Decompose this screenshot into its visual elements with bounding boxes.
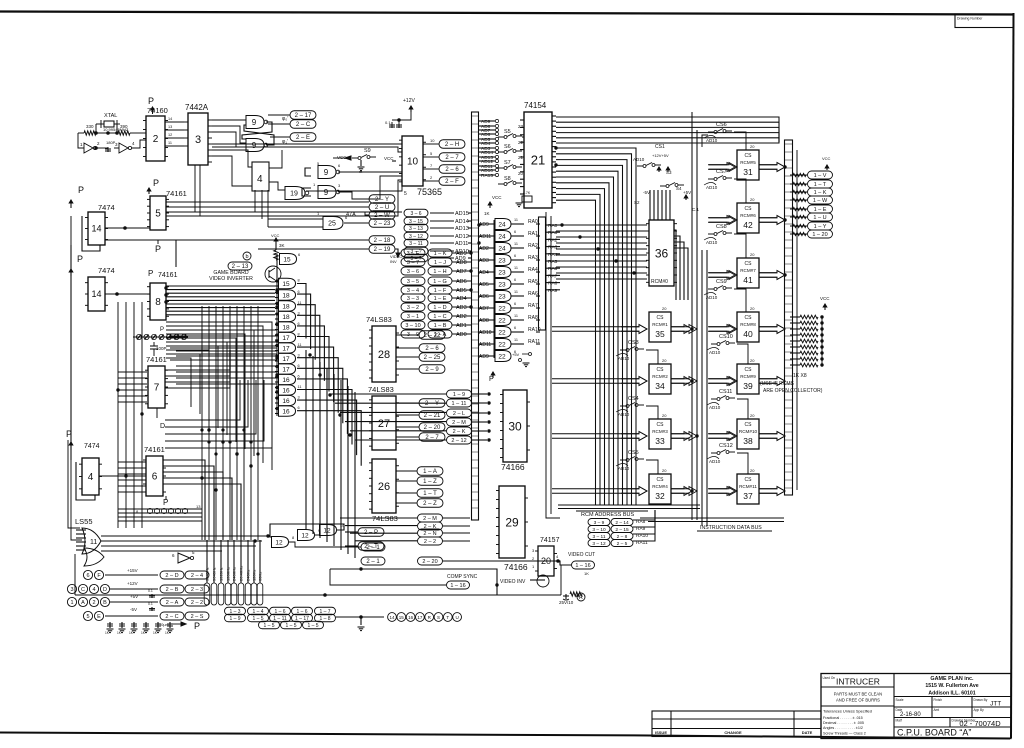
svg-text:74LS83: 74LS83 (368, 385, 394, 394)
cross coupling (242, 122, 272, 139)
svg-text:4: 4 (257, 174, 263, 185)
svg-text:11: 11 (90, 539, 97, 546)
ovals right of 27 (419, 399, 445, 408)
svg-text:AD9: AD9 (455, 256, 466, 262)
svg-text:RCM#4: RCM#4 (652, 484, 668, 489)
svg-text:34: 34 (655, 381, 665, 391)
svg-text:AD6: AD6 (479, 294, 489, 300)
svg-text:AD10: AD10 (706, 138, 718, 143)
svg-text:B: B (103, 600, 107, 606)
svg-text:6: 6 (298, 252, 301, 257)
svg-text:AD8: AD8 (479, 318, 489, 324)
svg-text:VIDEO INVERTER: VIDEO INVERTER (209, 276, 253, 282)
wire 14b to 8 (105, 293, 150, 295)
wire staircase vertical (319, 362, 321, 538)
svg-text:23: 23 (518, 124, 524, 129)
svg-text:32: 32 (655, 491, 665, 501)
svg-text:2: 2 (532, 556, 535, 561)
svg-text:AD15: AD15 (455, 211, 469, 217)
wire bundle from left to 75365 (208, 211, 402, 213)
svg-text:15: 15 (283, 256, 291, 263)
svg-text:3: 3 (70, 587, 73, 593)
oval pair AD2 (401, 312, 425, 320)
oval RA8 (588, 519, 610, 526)
svg-text:Tolerances Unless Specified: Tolerances Unless Specified (823, 709, 872, 714)
svg-text:1 – E: 1 – E (434, 296, 447, 302)
svg-text:42: 42 (743, 220, 753, 230)
rom output arrows left column (671, 325, 692, 334)
pullup resistor row 3 (800, 333, 818, 337)
wire counter mesh (166, 354, 200, 414)
svg-text:CS4: CS4 (628, 396, 639, 402)
svg-text:AD4: AD4 (479, 270, 489, 276)
svg-text:D: D (103, 587, 107, 593)
wire stack staircase (297, 347, 334, 402)
ROM RCM#9 (39) (737, 364, 759, 394)
svg-text:74LS83: 74LS83 (366, 315, 392, 324)
svg-text:XTAL: XTAL (104, 113, 117, 119)
svg-text:2 – 4: 2 – 4 (191, 573, 203, 579)
svg-text:CS: CS (745, 153, 753, 159)
svg-text:1 – V: 1 – V (814, 173, 827, 179)
svg-text:Scale: Scale (896, 698, 904, 702)
oval 2-18 (369, 236, 395, 245)
svg-text:18: 18 (282, 314, 290, 321)
wire stack staircase (297, 294, 311, 349)
svg-text:16: 16 (408, 615, 414, 620)
gates 9c 9d (318, 166, 336, 179)
latch 23 row3 (495, 255, 511, 266)
wire counter mesh (166, 326, 263, 463)
wire RA to RCM0 (556, 236, 647, 238)
svg-text:C.1: C.1 (692, 207, 700, 212)
chip36 right stubs down (674, 230, 676, 300)
svg-text:17: 17 (282, 345, 290, 352)
svg-text:Used On: Used On (823, 676, 836, 680)
svg-text:2 – 2: 2 – 2 (424, 539, 436, 545)
svg-text:20: 20 (662, 413, 667, 418)
border bottom (0, 733, 1010, 739)
wire U8 to stack (166, 289, 275, 291)
svg-text:1: 1 (70, 600, 73, 606)
svg-text:2 – 21: 2 – 21 (424, 413, 441, 419)
wire address fan (556, 171, 618, 505)
bottom caps row (109, 622, 111, 628)
oval 1-16b (447, 581, 470, 589)
wire divider vertical (250, 306, 252, 540)
svg-text:Mat'l: Mat'l (896, 719, 903, 723)
output ovals 1-V..1-20 (808, 171, 833, 179)
svg-text:9: 9 (252, 118, 257, 127)
svg-text:-5V: -5V (130, 607, 137, 612)
ovals 2-Y 2-U 2-W right of gates (369, 195, 395, 204)
svg-text:3 – 5: 3 – 5 (407, 279, 419, 285)
wire U8 to stack (166, 292, 275, 294)
pullup resistor row 1 (800, 321, 818, 325)
svg-text:1 – E: 1 – E (814, 207, 827, 213)
svg-text:1 – Z: 1 – Z (423, 479, 437, 485)
wires 74160 to 7442 (165, 121, 184, 123)
wire address fan (556, 183, 609, 505)
svg-text:S5: S5 (504, 129, 511, 135)
pullup resistor row 4 (800, 339, 818, 343)
svg-text:3: 3 (338, 183, 341, 188)
svg-text:33: 33 (655, 436, 665, 446)
svg-text:3: 3 (298, 396, 300, 400)
svg-text:2 – 5: 2 – 5 (617, 541, 628, 547)
gate 15a top (280, 254, 297, 265)
svg-text:AD10: AD10 (709, 405, 721, 410)
mid horizontals u7 u6 outputs (165, 350, 230, 370)
svg-text:1 – B: 1 – B (434, 323, 447, 329)
bit row under U6 (147, 508, 152, 513)
wire stack staircase (297, 411, 361, 466)
pins 1A2B row (67, 597, 76, 606)
svg-text:DATE: DATE (802, 730, 813, 735)
svg-text:47A: 47A (346, 212, 356, 218)
long horizontals from gate 11 (101, 535, 268, 537)
left low vertical (74, 554, 76, 595)
freq pill 240Hz (245, 583, 251, 605)
IC U29 74166 (499, 486, 525, 558)
svg-text:11: 11 (514, 314, 518, 318)
wire 4 to 6 (99, 475, 146, 477)
svg-text:20: 20 (750, 252, 755, 257)
svg-text:ARE OPEN COLLECTOR): ARE OPEN COLLECTOR) (763, 388, 823, 394)
svg-text:P: P (78, 185, 84, 195)
svg-text:18: 18 (282, 303, 290, 310)
oval RA10 (588, 533, 610, 540)
svg-text:C: C (81, 587, 85, 593)
svg-text:27: 27 (378, 418, 390, 430)
IC U4 7474 (82, 458, 99, 495)
svg-text:74161: 74161 (146, 355, 167, 364)
svg-text:13: 13 (168, 125, 172, 129)
svg-text:2 – Z: 2 – Z (423, 501, 437, 507)
wire U8 to stack (166, 310, 275, 312)
svg-text:VCC: VCC (492, 195, 502, 200)
nand gate 9a (246, 116, 264, 129)
svg-text:RCM#3: RCM#3 (652, 429, 668, 434)
svg-text:1 – D: 1 – D (433, 305, 446, 311)
svg-text:+12V+5V: +12V+5V (652, 153, 669, 158)
svg-text:AD1: AD1 (456, 323, 467, 329)
svg-text:AD10: AD10 (709, 350, 721, 355)
latch 22 row9 (495, 327, 511, 338)
svg-text:A: A (81, 600, 85, 606)
svg-text:AD10: AD10 (706, 185, 718, 190)
svg-text:17: 17 (282, 335, 290, 342)
outer loop u4 (76, 462, 95, 500)
svg-text:RCM#8: RCM#8 (740, 322, 756, 327)
svg-text:6: 6 (514, 254, 516, 258)
svg-text:P: P (155, 244, 161, 254)
svg-text:7474: 7474 (98, 203, 115, 212)
svg-text:110µm: 110µm (157, 622, 170, 627)
wire address fan (556, 154, 632, 505)
svg-text:22: 22 (498, 329, 506, 336)
svg-text:2: 2 (430, 175, 433, 180)
svg-text:2 – 20: 2 – 20 (422, 559, 437, 565)
pins row 14-U (388, 613, 397, 622)
svg-text:+12V: +12V (127, 581, 138, 586)
ROM RCM#4 (32) (649, 474, 671, 504)
svg-text:INTRUCER: INTRUCER (836, 677, 880, 687)
oval 2-P2 (361, 557, 385, 565)
svg-text:App By: App By (974, 708, 985, 712)
svg-text:1 – 20: 1 – 20 (812, 232, 827, 238)
svg-text:40: 40 (743, 329, 753, 339)
ROM RCM#3 (33) (649, 419, 671, 449)
wire 74154 fan top (556, 133, 779, 142)
svg-text:14: 14 (91, 224, 101, 234)
svg-text:3 – 13: 3 – 13 (409, 226, 423, 232)
svg-text:CS: CS (657, 477, 665, 483)
wire U8 to stack (166, 299, 275, 301)
svg-text:11: 11 (298, 343, 302, 347)
svg-text:3 – 6: 3 – 6 (407, 269, 419, 275)
wire U5 output (166, 215, 365, 217)
ROM RCM#7 (41) (737, 258, 759, 288)
wires from 7442 to gates (212, 119, 246, 121)
wire address fan (556, 200, 596, 505)
svg-text:RCM#7: RCM#7 (740, 268, 756, 273)
svg-text:6: 6 (298, 364, 300, 368)
wire U8 to stack (166, 307, 275, 309)
svg-text:24: 24 (498, 233, 506, 240)
svg-text:2 – H: 2 – H (445, 142, 459, 148)
ovals 2-P 2-T left below (358, 528, 384, 537)
svg-text:S7: S7 (504, 160, 511, 166)
wire divider vertical (208, 306, 210, 540)
svg-text:2 – B: 2 – B (166, 587, 179, 593)
svg-text:Addison ILL. 60101: Addison ILL. 60101 (928, 691, 975, 697)
junction dots (555, 147, 557, 149)
ovals 2-C 2-S (160, 612, 184, 620)
freq pill 240KHz (231, 583, 237, 605)
svg-text:+5V: +5V (683, 190, 691, 195)
svg-text:+15V: +15V (127, 568, 138, 573)
wire address fan (556, 165, 623, 505)
wire left vertical (141, 302, 143, 528)
svg-text:U: U (455, 615, 458, 620)
svg-text:28: 28 (378, 349, 390, 361)
wire left vertical (133, 302, 135, 528)
svg-text:Screw Threads — Class 2: Screw Threads — Class 2 (823, 732, 866, 736)
svg-text:1 – T: 1 – T (423, 491, 437, 497)
drawing number box top right (955, 14, 1014, 28)
border top (0, 12, 1014, 15)
oval pair AD6 (401, 277, 425, 285)
svg-text:RA9: RA9 (548, 288, 558, 294)
svg-text:AD2: AD2 (456, 314, 467, 320)
inverter gate 1 (84, 143, 93, 153)
svg-text:AD10: AD10 (618, 466, 630, 471)
gate 16 row9 (279, 374, 296, 385)
svg-text:20: 20 (750, 306, 755, 311)
small res u21 (522, 196, 532, 202)
verticals from 7442 area down to long bus (194, 165, 196, 212)
IC U14b 7474 (88, 277, 105, 311)
svg-text:16: 16 (282, 398, 290, 405)
svg-text:18: 18 (282, 324, 290, 331)
svg-text:RA0: RA0 (548, 223, 558, 229)
svg-text:R: R (579, 595, 583, 601)
svg-text:75365: 75365 (417, 187, 442, 197)
svg-text:4: 4 (92, 587, 95, 593)
svg-text:2 – 12: 2 – 12 (451, 438, 466, 444)
wire 74154 fan top (556, 117, 779, 142)
ROM RCM#11 (37) (737, 474, 759, 504)
ovals left of 30 (447, 390, 472, 398)
svg-text:AD10: AD10 (618, 356, 630, 361)
RA bus bar right (539, 217, 546, 330)
svg-text:1 – Y: 1 – Y (814, 224, 827, 230)
svg-text:6: 6 (172, 553, 175, 558)
svg-text:1 – C: 1 – C (433, 314, 446, 320)
latch 24 row1 (495, 231, 511, 242)
ROM RCM#5 (31) (737, 150, 759, 180)
stubs IC7 IC6 to verticals (118, 371, 147, 373)
conn pair 0 (225, 607, 246, 615)
svg-text:11: 11 (514, 218, 518, 222)
svg-text:1 – U: 1 – U (813, 215, 826, 221)
wire RA to RCM0 (556, 260, 647, 262)
svg-text:20: 20 (662, 358, 667, 363)
svg-text:22: 22 (498, 317, 506, 324)
svg-text:C.P.U. BOARD “A”: C.P.U. BOARD “A” (897, 728, 971, 738)
svg-text:(USE IF RCMS: (USE IF RCMS (760, 381, 795, 387)
svg-text:AD7: AD7 (456, 269, 467, 275)
freq pill 9640Hz (211, 583, 217, 605)
CS6 wire run top (702, 135, 708, 147)
svg-text:1 – K: 1 – K (434, 251, 447, 257)
svg-text:12: 12 (168, 133, 172, 137)
svg-text:7474: 7474 (98, 266, 115, 275)
svg-text:ISSUE: ISSUE (655, 730, 667, 735)
staircase right to shift registers (330, 393, 446, 395)
svg-text:RCM#1: RCM#1 (652, 322, 668, 327)
ROM RCM#6 (42) (737, 203, 759, 233)
IC U14a 7474 (88, 212, 105, 245)
wire U8 to stack (166, 285, 275, 287)
svg-text:23: 23 (498, 257, 506, 264)
svg-text:25V/10: 25V/10 (559, 600, 574, 605)
svg-text:22: 22 (498, 305, 506, 312)
svg-text:16: 16 (282, 377, 290, 384)
svg-text:RCM#11: RCM#11 (739, 484, 757, 489)
svg-text:2 – Y: 2 – Y (375, 197, 389, 203)
oval 2-19 (369, 245, 395, 254)
svg-text:7474: 7474 (84, 443, 100, 450)
svg-text:23: 23 (498, 281, 506, 288)
IC U21 74154 (524, 112, 552, 208)
svg-text:20: 20 (518, 171, 524, 176)
svg-text:CS: CS (657, 367, 665, 373)
revision table (652, 711, 821, 737)
transistor Q1 (265, 266, 281, 282)
wire counter mesh (166, 350, 209, 421)
wire divider vertical (243, 306, 245, 540)
pin 6F row (83, 570, 92, 579)
long wires from left ICs to ovals (166, 201, 369, 203)
right instruction bus bar (785, 140, 793, 495)
wire 74154 fan top (556, 138, 779, 142)
svg-text:JTT: JTT (990, 701, 1001, 708)
IC U26 74LS83 (372, 459, 396, 513)
svg-text:φ₀′: φ₀′ (282, 116, 288, 122)
svg-text:36: 36 (655, 246, 669, 260)
svg-text:9: 9 (252, 141, 257, 150)
svg-text:S3: S3 (666, 170, 672, 175)
gate 18 row1 (279, 290, 296, 301)
svg-text:AND FREE OF BURRS: AND FREE OF BURRS (836, 698, 880, 703)
gate 12a (272, 537, 289, 548)
svg-text:15: 15 (282, 281, 290, 288)
svg-text:-5V: -5V (643, 190, 650, 195)
svg-text:CS: CS (657, 315, 665, 321)
svg-text:2 – 19: 2 – 19 (374, 247, 391, 253)
wire stack staircase (297, 368, 343, 423)
wire RA to RCM0 (556, 254, 647, 256)
border right (1011, 13, 1014, 738)
svg-text:6: 6 (514, 302, 516, 306)
svg-text:20: 20 (750, 358, 755, 363)
IC U10 75365 (402, 136, 423, 186)
small switch marks above u36 (637, 165, 643, 167)
wire RA to RCM0 (556, 248, 647, 250)
gate 17 row7 (279, 353, 296, 364)
oval pair AD7 (401, 267, 425, 275)
ovals right of 28 (419, 331, 445, 340)
svg-text:INV: INV (390, 259, 397, 264)
svg-text:S6: S6 (504, 144, 511, 150)
svg-text:22: 22 (498, 341, 506, 348)
ovals 2-B 2-3 (160, 585, 184, 593)
svg-text:2 – 17: 2 – 17 (295, 113, 312, 119)
svg-text:1 – G: 1 – G (433, 279, 446, 285)
svg-text:4: 4 (132, 141, 135, 146)
svg-text:AD11: AD11 (479, 342, 491, 348)
svg-text:0.1: 0.1 (148, 589, 153, 593)
right oval resistors (793, 173, 806, 176)
svg-text:COMP SYNC: COMP SYNC (447, 574, 478, 580)
svg-text:F: F (97, 573, 101, 579)
svg-text:39: 39 (743, 381, 753, 391)
ROM RCM#2 (34) (649, 364, 671, 394)
gate 12c (320, 525, 337, 536)
used-on row (821, 686, 894, 688)
svg-text:2 – A: 2 – A (166, 600, 179, 606)
IC U2 74160 (146, 116, 165, 161)
svg-text:CS1: CS1 (655, 144, 665, 150)
svg-text:17: 17 (282, 356, 290, 363)
svg-text:31: 31 (743, 167, 753, 177)
oval 1-16a (572, 561, 595, 569)
gate 25 (323, 217, 343, 230)
ovals 2-A 2-2 (160, 598, 184, 606)
svg-text:3: 3 (195, 134, 201, 146)
pin b (243, 252, 251, 260)
horizontals lower left (118, 508, 202, 510)
svg-text:18: 18 (282, 292, 290, 299)
svg-text:16: 16 (282, 408, 290, 415)
IC U27 74LS83 (372, 396, 396, 450)
wire counter mesh (166, 334, 245, 449)
svg-text:6: 6 (514, 326, 516, 330)
svg-text:AD10: AD10 (633, 157, 645, 162)
wires gates to ovals (268, 114, 290, 116)
